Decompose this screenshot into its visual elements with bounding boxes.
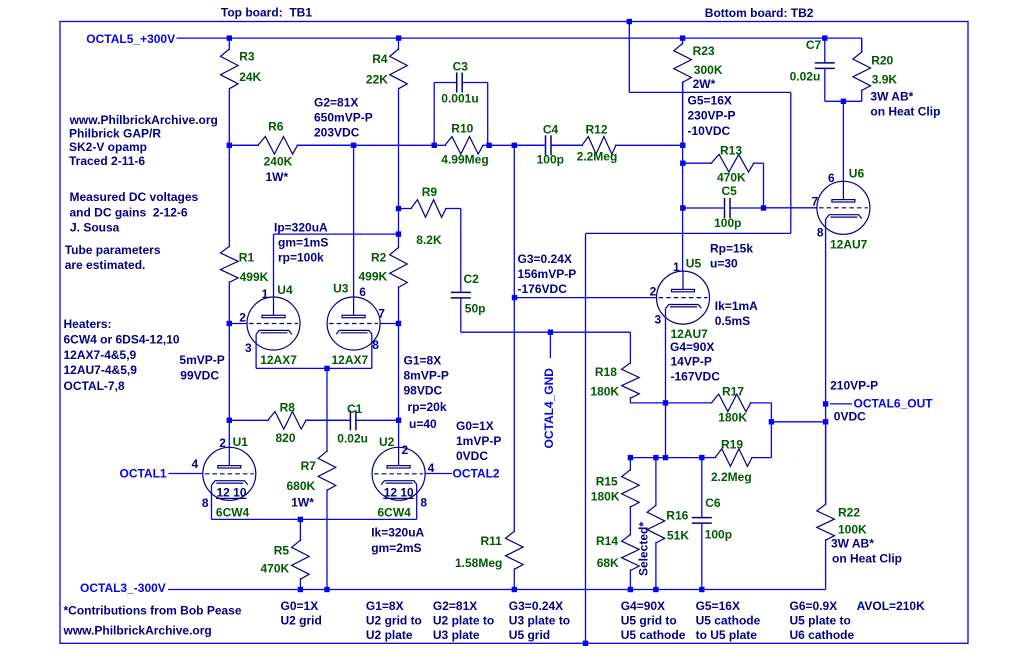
svg-text:U3 plate: U3 plate [433, 628, 480, 642]
wire -300V rail [168, 589, 826, 591]
capacitor C5 [683, 207, 725, 209]
svg-text:G5=16X: G5=16X [696, 599, 740, 613]
svg-text:0VDC: 0VDC [456, 449, 488, 463]
junction U6 plate tap [841, 99, 846, 104]
svg-text:0.02u: 0.02u [790, 70, 821, 84]
svg-text:R16: R16 [666, 508, 688, 522]
svg-text:OCTAL3_-300V: OCTAL3_-300V [80, 581, 166, 595]
wire U1/U2 cathode bus [212, 518, 417, 520]
tube U5 12AU7 [657, 271, 710, 324]
svg-text:5mVP-P: 5mVP-P [179, 353, 224, 367]
resistor R23 [682, 38, 684, 44]
svg-text:R10: R10 [451, 122, 473, 136]
svg-text:8: 8 [202, 496, 209, 510]
svg-text:U1: U1 [233, 435, 249, 449]
svg-text:J. Sousa: J. Sousa [70, 220, 120, 234]
junction OCTAL4_GND stem [548, 330, 553, 335]
svg-text:2.2Meg: 2.2Meg [577, 150, 618, 164]
junction R12/R23 node [680, 143, 685, 148]
svg-text:are estimated.: are estimated. [65, 258, 146, 272]
svg-text:U5 plate to: U5 plate to [790, 614, 851, 628]
wire R18 bottom to R17 row [630, 402, 665, 404]
svg-text:*Contributions from Bob Pease: *Contributions from Bob Pease [64, 604, 242, 618]
wire shield horizontal y=92 [629, 91, 791, 93]
junction cathode bus / R5 [298, 517, 303, 522]
svg-text:G4=90X: G4=90X [670, 340, 714, 354]
junction +300V/R3 [227, 35, 232, 40]
junction U5 grid tap [512, 295, 517, 300]
capacitor C2 [460, 290, 462, 293]
junction R13/C5 right [761, 205, 766, 210]
wire node row R6 to C3 loop [298, 144, 435, 146]
svg-text:22K: 22K [366, 73, 388, 87]
wire U4 plate wire y=234 [274, 233, 399, 235]
svg-text:12 10: 12 10 [217, 486, 247, 500]
svg-text:rp=100k: rp=100k [278, 251, 324, 265]
svg-text:8: 8 [817, 226, 824, 240]
wire shield drop from top border [628, 22, 630, 93]
svg-text:R20: R20 [871, 54, 893, 68]
svg-text:Rp=15k: Rp=15k [710, 241, 753, 255]
svg-text:rp=20k: rp=20k [408, 400, 447, 414]
svg-text:R9: R9 [422, 185, 438, 199]
svg-text:650mVP-P: 650mVP-P [314, 110, 373, 124]
wire U2 cathode lead [416, 485, 418, 520]
svg-text:R11: R11 [481, 534, 503, 548]
svg-text:G1=8X: G1=8X [366, 599, 404, 613]
wire U2 grid to OCTAL2 [425, 473, 452, 475]
wire U2 plate lead [398, 420, 400, 447]
svg-text:Ik=320uA: Ik=320uA [371, 526, 424, 540]
svg-text:G3=0.24X: G3=0.24X [509, 599, 563, 613]
wire +300V rail [177, 37, 862, 39]
wire U5 grid wire [515, 297, 657, 299]
wire U6 cathode lead down to output node [825, 219, 827, 505]
svg-text:3: 3 [245, 341, 252, 355]
junction R1 bottom / U4 grid [227, 321, 232, 326]
svg-text:14VP-P: 14VP-P [671, 355, 712, 369]
svg-text:24K: 24K [239, 70, 261, 84]
svg-text:156mVP-P: 156mVP-P [518, 267, 577, 281]
wire shield right vertical x=791 [790, 92, 792, 233]
junction rail/R16 [653, 587, 658, 592]
svg-text:100p: 100p [537, 153, 564, 167]
wire output row to U6 cathode line [771, 421, 825, 423]
resistor R4 [398, 38, 400, 50]
svg-text:C3: C3 [453, 60, 469, 74]
svg-text:C5: C5 [722, 184, 738, 198]
svg-text:C1: C1 [347, 402, 363, 416]
svg-text:210VP-P: 210VP-P [830, 378, 878, 392]
svg-text:U2 plate: U2 plate [366, 628, 413, 642]
svg-text:68K: 68K [597, 556, 619, 570]
svg-text:2.2Meg: 2.2Meg [711, 470, 752, 484]
svg-text:U5 grid: U5 grid [509, 628, 550, 642]
junction row/R15 [628, 455, 633, 460]
svg-text:203VDC: 203VDC [314, 126, 360, 140]
svg-text:R2: R2 [371, 251, 387, 265]
junction +300V/R23 [680, 35, 685, 40]
junction +300V/R4 [396, 35, 401, 40]
svg-text:U6: U6 [849, 167, 865, 181]
junction U1 plate / R8 row [227, 418, 232, 423]
junction rail/R14 [628, 587, 633, 592]
svg-text:8.2K: 8.2K [416, 233, 442, 247]
svg-text:51K: 51K [667, 529, 689, 543]
svg-text:12AU7-4&5,9: 12AU7-4&5,9 [64, 363, 138, 377]
svg-text:G5=16X: G5=16X [688, 94, 732, 108]
svg-text:0.5mS: 0.5mS [715, 314, 750, 328]
junction C3 left [432, 143, 437, 148]
junction R2 bottom / U3 grid [396, 321, 401, 326]
junction R2 top / U4 plate wire [396, 231, 401, 236]
svg-text:U2 grid to: U2 grid to [366, 614, 422, 628]
svg-text:Philbrick GAP/R: Philbrick GAP/R [69, 127, 161, 141]
svg-text:Ip=320uA: Ip=320uA [274, 221, 328, 235]
svg-text:499K: 499K [240, 270, 269, 284]
svg-text:R8: R8 [280, 401, 296, 415]
capacitor C1 [306, 419, 350, 421]
svg-text:Measured DC voltages: Measured DC voltages [70, 190, 199, 204]
svg-text:G2=81X: G2=81X [314, 95, 358, 109]
svg-text:OCTAL5_+300V: OCTAL5_+300V [86, 32, 175, 46]
svg-text:SK2-V opamp: SK2-V opamp [69, 140, 147, 154]
svg-text:100p: 100p [714, 216, 741, 230]
svg-text:U2 plate to: U2 plate to [433, 614, 494, 628]
junction node/C5 left [680, 205, 685, 210]
wire R1 node down to U1 plate [228, 324, 230, 421]
svg-text:Top board: TB1: Top board: TB1 [221, 6, 312, 20]
svg-text:OCTAL6_OUT: OCTAL6_OUT [854, 397, 934, 411]
wire R4/R9 node down to R2 top [398, 209, 400, 235]
svg-text:U3 plate to: U3 plate to [509, 614, 570, 628]
capacitor C6 [701, 458, 703, 518]
svg-text:R4: R4 [372, 52, 388, 66]
svg-text:U2: U2 [379, 435, 395, 449]
svg-text:2W*: 2W* [693, 77, 716, 91]
junction R10/C3 right [486, 143, 491, 148]
junction shield/top border [627, 19, 632, 24]
svg-text:12AX7-4&5,9: 12AX7-4&5,9 [64, 348, 137, 362]
svg-text:180K: 180K [590, 384, 619, 398]
wire U5 cathode lead [665, 308, 667, 457]
svg-text:Ik=1mA: Ik=1mA [715, 299, 758, 313]
wire G2 node row y=145 [229, 144, 258, 146]
svg-text:6CW4 or 6DS4-12,10: 6CW4 or 6DS4-12,10 [64, 333, 180, 347]
svg-text:U5: U5 [686, 257, 702, 271]
junction U2 plate / C1 row [396, 418, 401, 423]
svg-text:820: 820 [276, 431, 296, 445]
svg-text:2: 2 [402, 443, 409, 457]
svg-text:U2 grid: U2 grid [281, 614, 322, 628]
wire C7/R20 bottom to U6 plate node [825, 100, 862, 102]
wire U4 grid wire [229, 323, 247, 325]
svg-text:u=30: u=30 [710, 257, 738, 271]
svg-text:98VDC: 98VDC [404, 384, 443, 398]
svg-text:G1=8X: G1=8X [404, 354, 442, 368]
svg-text:180K: 180K [718, 411, 747, 425]
junction row/U5 cathode [663, 455, 668, 460]
svg-text:3W AB*: 3W AB* [870, 90, 913, 104]
junction cathode bus / R7 [324, 366, 329, 371]
junction R9 left [396, 206, 401, 211]
svg-text:6: 6 [828, 171, 835, 185]
junction output node [823, 419, 828, 424]
svg-text:and DC gains 2-12-6: and DC gains 2-12-6 [70, 205, 188, 219]
resistor R15 [629, 458, 631, 471]
svg-text:0VDC: 0VDC [834, 410, 866, 424]
svg-text:6CW4: 6CW4 [378, 506, 412, 520]
svg-text:180K: 180K [591, 490, 620, 504]
svg-text:240K: 240K [264, 155, 293, 169]
svg-text:C4: C4 [543, 123, 559, 137]
svg-text:470K: 470K [261, 562, 290, 576]
svg-text:12AU7: 12AU7 [830, 238, 868, 252]
junction rail/R7 [324, 587, 329, 592]
wire C2 bottom to ground row [461, 331, 631, 333]
tube U4 12AX7 [247, 297, 300, 350]
wire R9 right lead down to C2 [460, 209, 462, 290]
resistor R10 [434, 144, 446, 146]
svg-text:R3: R3 [239, 50, 255, 64]
wire G3 node down to R11 [513, 145, 515, 531]
junction +300V/C7 [822, 35, 827, 40]
svg-text:R6: R6 [268, 120, 284, 134]
svg-text:R13: R13 [720, 144, 742, 158]
svg-text:AVOL=210K: AVOL=210K [857, 599, 925, 613]
wire U4/U3 cathode bus [256, 367, 372, 369]
wire node row to C4 [489, 144, 543, 146]
svg-text:www.PhilbrickArchive.org: www.PhilbrickArchive.org [63, 624, 212, 638]
wire R2 node down to U2 plate [398, 324, 400, 421]
svg-text:-176VDC: -176VDC [518, 282, 568, 296]
junction row/R16 [653, 455, 658, 460]
junction output row right [769, 419, 774, 424]
resistor R17 [666, 402, 713, 404]
svg-text:gm=2mS: gm=2mS [371, 541, 421, 555]
wire U5 cathode row [630, 457, 701, 459]
svg-text:12AX7: 12AX7 [260, 353, 297, 367]
svg-text:100p: 100p [705, 528, 732, 542]
svg-text:4: 4 [192, 457, 199, 471]
svg-text:OCTAL-7,8: OCTAL-7,8 [64, 379, 125, 393]
tube U1 6CW4 [203, 447, 256, 500]
svg-text:7: 7 [378, 307, 385, 321]
svg-text:Bottom board: TB2: Bottom board: TB2 [705, 6, 814, 20]
resistor R5 [299, 519, 301, 541]
resistor R2 [398, 234, 400, 248]
svg-text:Tube parameters: Tube parameters [65, 243, 161, 257]
junction U3 plate branch [351, 143, 356, 148]
svg-text:8: 8 [420, 496, 427, 510]
svg-text:300K: 300K [694, 63, 723, 77]
resistor R8 [229, 419, 269, 421]
svg-text:1W*: 1W* [266, 170, 289, 184]
capacitor C3 [433, 83, 435, 146]
svg-text:1: 1 [673, 260, 680, 274]
wire U3 cathode lead [371, 334, 373, 368]
svg-text:R5: R5 [274, 544, 290, 558]
svg-text:100K: 100K [838, 523, 867, 537]
junction row/C6 [699, 455, 704, 460]
svg-text:U3: U3 [333, 282, 349, 296]
svg-text:gm=1mS: gm=1mS [278, 236, 328, 250]
svg-text:Traced 2-11-6: Traced 2-11-6 [69, 154, 145, 168]
resistor R12 [551, 144, 583, 146]
tube U6 12AU7 (output cathode follower) [817, 181, 870, 234]
svg-text:499K: 499K [359, 270, 388, 284]
net OCTAL4_GND label and stem [549, 332, 551, 358]
svg-text:C6: C6 [705, 496, 721, 510]
svg-text:R14: R14 [596, 534, 618, 548]
tube U2 6CW4 [372, 447, 425, 500]
svg-text:C7: C7 [806, 38, 822, 52]
resistor R16 [655, 458, 657, 507]
svg-text:U5 grid to: U5 grid to [621, 614, 677, 628]
svg-text:Heaters:: Heaters: [64, 317, 112, 331]
svg-text:230VP-P: 230VP-P [688, 109, 736, 123]
junction R11/U5-grid branch [512, 143, 517, 148]
svg-text:G0=1X: G0=1X [281, 599, 319, 613]
wire +300V to R20 [861, 38, 863, 52]
junction OCTAL6 stub [823, 401, 828, 406]
svg-text:50p: 50p [465, 302, 486, 316]
svg-text:470K: 470K [717, 171, 746, 185]
wire U1 plate lead [228, 420, 230, 447]
resistor R3 [228, 38, 230, 50]
wire shield horizontal y=233 [586, 232, 791, 234]
svg-text:2: 2 [650, 284, 657, 298]
resistor R22 [825, 422, 827, 505]
svg-text:G6=0.9X: G6=0.9X [790, 599, 838, 613]
svg-text:www.PhilbrickArchive.org: www.PhilbrickArchive.org [69, 113, 218, 127]
junction rail/R11 [512, 587, 517, 592]
wire U6 plate lead [842, 101, 844, 181]
resistor R20 [861, 38, 863, 53]
svg-text:1W*: 1W* [291, 496, 314, 510]
svg-text:2: 2 [219, 436, 226, 450]
wire U3 grid wire [380, 323, 398, 325]
svg-text:0.02u: 0.02u [337, 432, 368, 446]
svg-text:U6 cathode: U6 cathode [790, 628, 855, 642]
capacitor C4 [514, 144, 545, 146]
wire C5 node to U6 grid [764, 207, 817, 209]
svg-text:R7: R7 [301, 459, 317, 473]
svg-text:on Heat Clip: on Heat Clip [832, 552, 902, 566]
svg-text:8mVP-P: 8mVP-P [404, 369, 449, 383]
svg-text:1: 1 [262, 287, 269, 301]
resistor R9 [399, 208, 413, 210]
resistor R1 [228, 145, 230, 247]
svg-text:3W AB*: 3W AB* [831, 537, 874, 551]
junction rail/C6 [699, 587, 704, 592]
junction shield/bottom border [583, 641, 588, 646]
junction rail/R5 [298, 587, 303, 592]
junction node/R13 left [680, 161, 685, 166]
svg-text:to U5 plate: to U5 plate [696, 628, 758, 642]
svg-text:on Heat Clip: on Heat Clip [870, 105, 940, 119]
svg-text:G3=0.24X: G3=0.24X [518, 252, 572, 266]
svg-text:R17: R17 [722, 385, 744, 399]
svg-text:U4: U4 [277, 283, 293, 297]
svg-text:1mVP-P: 1mVP-P [456, 434, 501, 448]
svg-text:OCTAL2: OCTAL2 [453, 467, 500, 481]
svg-text:99VDC: 99VDC [180, 368, 219, 382]
svg-text:12AX7: 12AX7 [332, 353, 369, 367]
svg-text:7: 7 [812, 195, 819, 209]
svg-text:G2=81X: G2=81X [433, 599, 477, 613]
svg-text:R18: R18 [595, 365, 617, 379]
svg-text:C2: C2 [464, 272, 480, 286]
wire U4 plate lead [273, 234, 275, 297]
svg-text:Selected*: Selected* [637, 522, 651, 576]
wire R23 bottom to U5 plate [682, 82, 684, 271]
svg-text:2: 2 [239, 311, 246, 325]
wire OCTAL1 to U1 grid [169, 473, 203, 475]
junction U5 cathode / R17 row [663, 400, 668, 405]
resistor R13 [683, 162, 713, 164]
svg-text:1.58Meg: 1.58Meg [455, 556, 502, 570]
svg-text:-10VDC: -10VDC [688, 124, 731, 138]
svg-text:680K: 680K [287, 479, 316, 493]
svg-text:R15: R15 [596, 475, 618, 489]
svg-text:R1: R1 [239, 251, 255, 265]
svg-text:OCTAL1: OCTAL1 [120, 467, 167, 481]
svg-text:R22: R22 [838, 506, 860, 520]
wire U3 plate lead [353, 145, 355, 297]
tube U3 12AX7 [327, 297, 380, 350]
svg-text:3: 3 [655, 313, 662, 327]
wire U1 cathode lead [211, 485, 213, 520]
svg-text:G0=1X: G0=1X [456, 419, 494, 433]
junction R3/R6/R1 [227, 143, 232, 148]
svg-text:G4=90X: G4=90X [621, 599, 665, 613]
svg-text:4.99Meg: 4.99Meg [441, 153, 488, 167]
svg-text:6CW4: 6CW4 [216, 506, 250, 520]
resistor R19 [702, 457, 716, 459]
wire R17 right lead down [770, 403, 772, 458]
svg-text:U5 cathode: U5 cathode [621, 628, 686, 642]
resistor R14 [629, 535, 631, 536]
capacitor C7 [824, 38, 826, 63]
svg-text:R23: R23 [693, 44, 715, 58]
resistor R18 [629, 332, 631, 364]
resistor R11 [513, 531, 515, 532]
resistor R6 [229, 144, 259, 146]
svg-text:U5 cathode: U5 cathode [696, 614, 761, 628]
svg-text:-167VDC: -167VDC [671, 369, 721, 383]
svg-text:6: 6 [359, 285, 366, 299]
wire shield left vertical x=585.5 [585, 233, 587, 643]
wire U4 plate lead inside from y=234 handled above; cathode lead [255, 334, 257, 368]
svg-text:R12: R12 [586, 123, 608, 137]
svg-text:0.001u: 0.001u [441, 92, 478, 106]
svg-text:3.9K: 3.9K [872, 73, 898, 87]
svg-text:OCTAL4_GND: OCTAL4_GND [542, 368, 556, 449]
net OCTAL6_OUT label [830, 403, 852, 405]
svg-text:R19: R19 [721, 438, 743, 452]
svg-text:12 10: 12 10 [384, 486, 414, 500]
svg-text:u=40: u=40 [409, 417, 437, 431]
svg-text:8: 8 [372, 338, 379, 352]
resistor R7 [326, 368, 328, 452]
